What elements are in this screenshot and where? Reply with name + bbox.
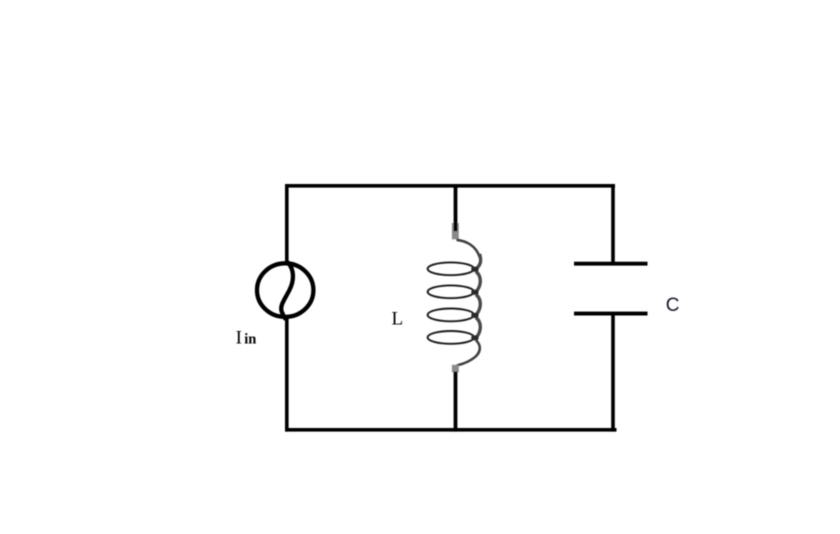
svg-text:in: in xyxy=(244,331,256,347)
inductor L : top lead curve xyxy=(457,240,480,257)
svg-text:I: I xyxy=(236,327,242,348)
inductor L : back arc 2 xyxy=(476,272,480,293)
inductor L : bottom lead curve xyxy=(457,340,480,365)
wire bottom (node: bottom rail) xyxy=(285,428,617,432)
wire middle lower (inductor to bottom rail) xyxy=(454,372,458,432)
inductor L : wire overlap on top pad xyxy=(454,223,458,231)
inductor L : junction blob 3 xyxy=(471,313,478,318)
wire right upper (top rail to capacitor) xyxy=(611,184,615,263)
wire right lower (capacitor to bottom rail) xyxy=(611,314,615,432)
wire left lower (current source to bottom rail) xyxy=(285,317,289,432)
inductor L : top terminal pad xyxy=(452,223,459,239)
inductor L : back arc 3 xyxy=(476,295,480,316)
capacitor C : bottom plate xyxy=(574,312,648,316)
wire top (node: top rail) xyxy=(285,184,615,188)
inductor L : junction blob 1 xyxy=(471,267,478,272)
svg-text:C: C xyxy=(666,295,680,316)
inductor L : junction blob 2 xyxy=(471,290,478,295)
capacitor C : top plate xyxy=(574,262,648,266)
wire middle upper (top rail to inductor) xyxy=(454,184,458,231)
current source Iin : sine curve xyxy=(281,263,293,319)
svg-text:L: L xyxy=(392,309,404,330)
inductor L : back arc 4 xyxy=(476,318,480,339)
inductor L : junction blob 4 xyxy=(471,335,478,340)
current source Iin : circle xyxy=(257,263,313,317)
inductor L : loop 4 xyxy=(428,331,474,344)
inductor L : bottom terminal pad xyxy=(452,365,459,373)
inductor L : loop 1 xyxy=(428,262,474,275)
wire left upper (top rail to current source) xyxy=(285,184,289,262)
inductor L : loop 3 xyxy=(428,309,474,322)
inductor L : back arc 1 xyxy=(476,254,481,269)
inductor L : loop 2 xyxy=(428,285,474,298)
